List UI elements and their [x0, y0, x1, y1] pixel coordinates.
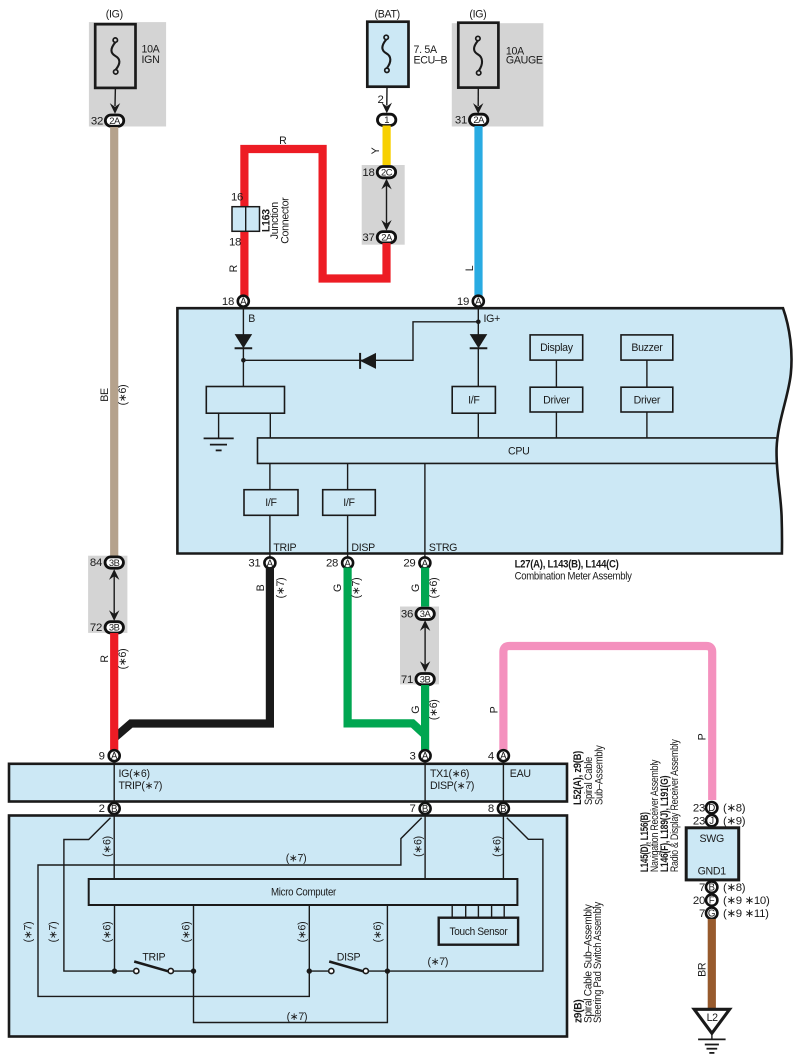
svg-text:20: 20 — [693, 895, 705, 907]
steering pad switch assembly box — [9, 816, 567, 1037]
svg-text:BE: BE — [99, 388, 111, 402]
svg-text:(∗9): (∗9) — [723, 815, 746, 827]
svg-text:R: R — [99, 655, 111, 663]
label (*6) pin2 — [102, 836, 114, 857]
svg-text:2C: 2C — [381, 167, 393, 178]
svg-text:R: R — [228, 264, 240, 272]
wire MC to TRIP left — [114, 905, 116, 971]
wire P pink EAU — [503, 646, 712, 800]
connector pin 1 — [377, 114, 395, 125]
wire R red from 2A through junction to meter — [244, 149, 386, 297]
svg-text:16: 16 — [231, 192, 243, 204]
svg-text:B: B — [708, 883, 714, 894]
svg-text:L2: L2 — [707, 1012, 719, 1024]
svg-text:G: G — [410, 706, 422, 714]
label spiral cable designators — [572, 745, 606, 805]
label BR — [696, 962, 708, 977]
svg-text:Sub–Assembly: Sub–Assembly — [594, 745, 606, 805]
svg-text:(BAT): (BAT) — [375, 8, 400, 20]
svg-text:Driver: Driver — [634, 394, 661, 406]
label R top horizontal — [279, 135, 287, 147]
svg-text:A: A — [240, 297, 247, 308]
svg-text:18: 18 — [222, 296, 234, 308]
svg-text:37: 37 — [362, 232, 374, 244]
label (*7) branch pin2 — [48, 922, 60, 943]
svg-text:(∗6): (∗6) — [102, 836, 114, 857]
svg-text:2A: 2A — [109, 115, 121, 126]
svg-text:(∗7): (∗7) — [286, 853, 307, 865]
label G lower — [410, 706, 422, 714]
svg-text:IGN: IGN — [142, 54, 160, 66]
connector pin 84 3B — [90, 557, 124, 569]
block Buzzer — [621, 335, 673, 360]
node junction dot on B line — [241, 358, 246, 363]
svg-text:G: G — [708, 909, 716, 920]
svg-text:G: G — [332, 584, 344, 592]
lead IF to CPU — [477, 413, 479, 438]
svg-text:(∗6): (∗6) — [428, 699, 440, 720]
svg-text:DISP: DISP — [337, 952, 361, 964]
label R below L163 — [228, 264, 240, 272]
label (*6) lower — [428, 699, 440, 720]
svg-text:IG(∗6): IG(∗6) — [119, 768, 150, 780]
svg-text:18: 18 — [229, 236, 241, 248]
block Display — [530, 335, 583, 360]
svg-text:2A: 2A — [473, 114, 485, 125]
label (*7) of B — [275, 578, 287, 599]
diode D1 on B line — [235, 334, 253, 348]
diode D3 left-pointing — [360, 353, 376, 369]
lead diode2 to IF box — [477, 348, 479, 386]
label radio receiver designators — [639, 739, 681, 873]
junction connector L163 — [229, 192, 292, 249]
label (*6) upper — [428, 578, 440, 599]
svg-text:I/F: I/F — [265, 497, 277, 509]
pin 18 A — [222, 296, 249, 308]
svg-text:8: 8 — [488, 803, 494, 815]
block I/F of TRIP — [244, 490, 298, 516]
svg-text:2: 2 — [377, 94, 383, 106]
node IG+ — [484, 313, 501, 325]
wire G green STRG upper — [421, 568, 429, 610]
net label (BAT) — [375, 8, 400, 20]
svg-text:84: 84 — [90, 557, 102, 569]
label (*7) of DISP wire — [350, 578, 362, 599]
svg-text:1: 1 — [384, 114, 389, 125]
net label EAU cell — [510, 768, 531, 780]
svg-text:31: 31 — [455, 115, 467, 127]
spiral cable band box — [9, 764, 567, 802]
block I/F of DISP — [323, 490, 376, 516]
pin 19 A — [457, 296, 484, 308]
svg-text:R: R — [279, 135, 287, 147]
svg-text:A: A — [475, 297, 482, 308]
svg-text:(∗6): (∗6) — [412, 836, 424, 857]
svg-text:28: 28 — [326, 558, 338, 570]
svg-text:(∗9 ∗10): (∗9 ∗10) — [723, 895, 770, 907]
connector block 2C-2A gray — [362, 165, 405, 245]
node junction dot on IG+ line — [476, 320, 481, 325]
svg-text:2A: 2A — [381, 232, 393, 243]
label (*7) left vertical — [23, 922, 35, 943]
svg-text:(∗9 ∗11): (∗9 ∗11) — [723, 908, 769, 920]
wire pin2 star7 branch to TRIP switch — [64, 818, 112, 971]
label B — [255, 584, 267, 591]
lead from pin 19 — [477, 307, 479, 335]
wire pin7 to micro computer — [424, 814, 426, 879]
svg-text:GND1: GND1 — [698, 865, 727, 877]
svg-text:3B: 3B — [420, 673, 431, 684]
label (*6) MC-DISP right — [372, 922, 384, 943]
pin 31 A — [248, 557, 275, 569]
svg-text:DISP(∗7): DISP(∗7) — [430, 780, 474, 792]
wire star7 link TRIP right to DISP right — [194, 971, 388, 1022]
wire B black TRIP — [115, 568, 270, 738]
wire G green DISP — [348, 568, 425, 735]
svg-text:4: 4 — [488, 750, 494, 762]
switch DISP — [307, 952, 391, 974]
net label DISP — [351, 542, 375, 554]
label (*6) MC-TRIP left — [102, 922, 114, 943]
ground L2 — [694, 1009, 729, 1053]
svg-text:23: 23 — [693, 815, 705, 827]
svg-text:TX1(∗6): TX1(∗6) — [430, 768, 469, 780]
pin 23 J — [693, 815, 746, 827]
svg-text:3: 3 — [410, 750, 416, 762]
svg-text:I/F: I/F — [468, 395, 480, 407]
touch sensor comb leads — [452, 905, 504, 918]
svg-text:A: A — [422, 751, 429, 762]
svg-text:SWG: SWG — [699, 833, 723, 845]
lead Driver1 to CPU — [555, 412, 557, 438]
svg-text:(IG): (IG) — [469, 8, 486, 20]
pin 8 B — [488, 803, 509, 815]
label (*6) of BE — [117, 385, 129, 406]
svg-text:P: P — [489, 706, 501, 713]
block I/F of IG+ — [452, 387, 495, 414]
label L — [464, 265, 476, 271]
block Touch Sensor — [439, 918, 518, 945]
connector pin 37 2A — [362, 232, 395, 244]
svg-text:7: 7 — [699, 908, 705, 920]
label P vertical left — [489, 706, 501, 713]
lead Driver2 to CPU — [646, 412, 648, 438]
svg-text:31: 31 — [248, 558, 260, 570]
svg-text:3B: 3B — [109, 557, 120, 568]
fuse block GAUGE gray background — [452, 23, 544, 126]
lead Buzzer to Driver — [646, 360, 648, 387]
svg-text:(∗7): (∗7) — [275, 578, 287, 599]
lead Display to Driver — [555, 360, 557, 387]
label (*7) long horizontal — [286, 853, 307, 865]
label (*6) MC-TRIP right — [181, 922, 193, 943]
net label TRIP — [273, 542, 296, 554]
svg-text:(∗7): (∗7) — [48, 922, 60, 943]
label P vertical right — [697, 733, 709, 740]
band divider at pin 4 — [502, 764, 504, 802]
svg-text:Steering Pad Switch Assembly: Steering Pad Switch Assembly — [592, 901, 604, 1023]
svg-text:B: B — [111, 804, 117, 815]
net label IG TRIP cell — [119, 768, 163, 792]
mating double arrow 3A-3B — [420, 620, 430, 672]
connector pin 31 2A — [455, 114, 488, 126]
label (*6) MC-DISP left — [297, 922, 309, 943]
arrow lead from fuse ECU-B with pin number 2 — [377, 87, 392, 114]
svg-text:32: 32 — [91, 115, 103, 127]
svg-text:Buzzer: Buzzer — [631, 342, 663, 354]
lead from pin 18 — [242, 307, 244, 335]
wire BE tan — [110, 127, 118, 557]
svg-text:7: 7 — [699, 882, 705, 894]
svg-text:Radio & Display Receiver Assem: Radio & Display Receiver Assembly — [669, 739, 681, 873]
block Driver 2 — [621, 387, 673, 412]
band divider at pin 3 — [424, 764, 426, 802]
connector pin 32 2A — [91, 115, 124, 127]
net label (IG) left — [106, 8, 123, 20]
svg-text:L: L — [464, 265, 476, 271]
connector pin 72 3B — [90, 622, 124, 634]
lead block to CPU — [269, 413, 271, 438]
pin 2 B — [99, 803, 120, 815]
label G of DISP wire — [332, 584, 344, 592]
arrow lead from fuse IGN — [110, 88, 120, 114]
svg-text:2: 2 — [99, 803, 105, 815]
pin 7 G — [699, 908, 769, 920]
label combination meter designators — [515, 559, 633, 583]
combination meter assembly box — [177, 308, 791, 553]
svg-text:(∗8): (∗8) — [723, 882, 746, 894]
block Micro Computer — [89, 879, 518, 905]
svg-text:(∗6): (∗6) — [492, 836, 504, 857]
label Y — [370, 147, 382, 154]
svg-text:(∗6): (∗6) — [297, 922, 309, 943]
pin 23 D — [693, 802, 746, 814]
svg-text:29: 29 — [403, 558, 415, 570]
block CPU — [258, 438, 777, 464]
svg-text:(IG): (IG) — [106, 8, 123, 20]
mating double arrow 2C-2A — [381, 179, 391, 231]
label (*6) pin7 — [412, 836, 424, 857]
fuse 10A IGN — [95, 24, 160, 88]
net label TX1 DISP cell — [430, 768, 474, 792]
wire Y yellow — [383, 126, 391, 169]
net label STRG — [429, 542, 457, 554]
wire MC to TRIP right — [193, 905, 195, 971]
wire BR brown — [708, 919, 716, 1008]
wire R red lower left — [110, 633, 118, 752]
pin 4 A — [488, 750, 509, 762]
svg-text:P: P — [697, 733, 709, 740]
svg-text:STRG: STRG — [429, 542, 457, 554]
wire MC to DISP right — [386, 905, 388, 971]
wire L blue — [474, 126, 482, 298]
svg-text:19: 19 — [457, 296, 469, 308]
label steering pad designators — [573, 901, 605, 1023]
svg-text:DISP: DISP — [351, 542, 375, 554]
label (*6) of R — [117, 649, 129, 670]
wire G green STRG lower — [421, 685, 429, 752]
svg-text:TRIP: TRIP — [142, 952, 165, 964]
svg-text:IG+: IG+ — [484, 313, 501, 325]
mating double arrow 3B-3B — [109, 569, 119, 621]
label R lower — [99, 655, 111, 663]
label BE — [99, 388, 111, 402]
svg-text:B: B — [255, 584, 267, 591]
svg-text:B: B — [248, 313, 255, 325]
svg-text:EAU: EAU — [510, 768, 531, 780]
label (*7) bottom link — [287, 1011, 308, 1023]
connector pin 71 3B — [401, 673, 434, 685]
leads CPU to IF DISP to pin 28 — [347, 463, 349, 557]
svg-text:(∗8): (∗8) — [723, 802, 746, 814]
svg-text:3A: 3A — [420, 608, 432, 619]
svg-text:(∗7): (∗7) — [287, 1011, 308, 1023]
svg-text:BR: BR — [696, 962, 708, 977]
fuse block IGN gray background — [89, 22, 166, 126]
svg-text:72: 72 — [90, 622, 102, 634]
connector block 3B-3B gray left — [88, 556, 127, 633]
band divider at pin 9 — [113, 764, 115, 802]
pin 28 A — [326, 557, 353, 569]
svg-text:Connector: Connector — [280, 197, 292, 244]
svg-text:18: 18 — [362, 167, 374, 179]
svg-text:(∗7): (∗7) — [350, 578, 362, 599]
lead block to ground — [218, 413, 220, 438]
svg-text:ECU–B: ECU–B — [414, 54, 448, 66]
block SWG GND1 — [686, 828, 739, 880]
block Driver 1 — [530, 387, 583, 412]
wire pin8 star7 branch to DISP switch — [389, 818, 543, 971]
svg-text:(∗6): (∗6) — [102, 922, 114, 943]
label (*6) pin8 — [492, 836, 504, 857]
svg-text:L27(A), L143(B), L144(C): L27(A), L143(B), L144(C) — [515, 559, 619, 571]
connector block 3A-3B gray — [400, 607, 439, 685]
svg-text:Touch Sensor: Touch Sensor — [450, 926, 509, 938]
node B — [248, 313, 255, 325]
svg-text:Driver: Driver — [543, 394, 570, 406]
wire pin2 to micro computer — [113, 814, 115, 879]
lead CPU to STRG pin 29 — [424, 463, 426, 557]
svg-text:(∗7): (∗7) — [23, 922, 35, 943]
internal block unnamed — [206, 387, 284, 414]
svg-text:(∗6): (∗6) — [428, 578, 440, 599]
wire pin7 star7 long branch to DISP switch — [38, 818, 422, 997]
diode D2 on IG+ line — [470, 334, 488, 348]
svg-text:F: F — [709, 896, 715, 907]
svg-text:36: 36 — [401, 609, 413, 621]
wire MC to DISP left — [308, 905, 310, 971]
svg-text:A: A — [500, 751, 507, 762]
svg-text:71: 71 — [401, 674, 413, 686]
fuse 10A GAUGE — [458, 23, 543, 88]
svg-text:B: B — [500, 804, 506, 815]
connector pin 18 2C — [362, 167, 395, 179]
svg-text:A: A — [111, 751, 118, 762]
svg-text:(∗6): (∗6) — [117, 649, 129, 670]
svg-text:(∗6): (∗6) — [372, 922, 384, 943]
svg-text:9: 9 — [99, 750, 105, 762]
pin 20 F — [693, 894, 770, 906]
svg-text:TRIP(∗7): TRIP(∗7) — [119, 780, 163, 792]
pin 9 A — [99, 750, 120, 762]
svg-text:7: 7 — [410, 803, 416, 815]
ground internal — [204, 438, 234, 450]
svg-text:Micro Computer: Micro Computer — [271, 887, 337, 899]
wire cross link B to IG+ — [243, 322, 478, 361]
svg-text:B: B — [422, 804, 428, 815]
switch TRIP — [112, 952, 196, 974]
svg-text:G: G — [410, 584, 422, 592]
pin 7 B — [410, 803, 431, 815]
svg-text:(∗6): (∗6) — [181, 922, 193, 943]
svg-text:J: J — [709, 816, 714, 827]
lead diode to box — [242, 348, 244, 386]
label (*7) of pin8 branch — [427, 956, 448, 968]
wire pin8 to micro computer — [502, 814, 504, 879]
pin 7 B radio — [699, 881, 746, 893]
label G upper — [410, 584, 422, 592]
svg-text:(∗7): (∗7) — [427, 956, 448, 968]
connector pin 36 3A — [401, 608, 434, 620]
fuse 7.5A ECU-B — [367, 22, 447, 87]
svg-text:Y: Y — [370, 147, 382, 154]
arrow lead from fuse GAUGE — [473, 88, 483, 114]
svg-text:D: D — [708, 803, 715, 814]
svg-text:I/F: I/F — [343, 497, 355, 509]
svg-text:3B: 3B — [109, 622, 120, 633]
svg-text:Combination Meter Assembly: Combination Meter Assembly — [515, 571, 633, 583]
net label (IG) right — [469, 8, 486, 20]
svg-text:Display: Display — [540, 342, 574, 354]
svg-text:(∗6): (∗6) — [117, 385, 129, 406]
svg-text:23: 23 — [693, 802, 705, 814]
leads CPU to IF TRIP to pin 31 — [269, 463, 271, 557]
svg-text:TRIP: TRIP — [273, 542, 296, 554]
pin 29 A — [403, 557, 430, 569]
svg-text:CPU: CPU — [508, 445, 529, 457]
pin 3 A — [410, 750, 431, 762]
svg-text:GAUGE: GAUGE — [506, 54, 543, 66]
